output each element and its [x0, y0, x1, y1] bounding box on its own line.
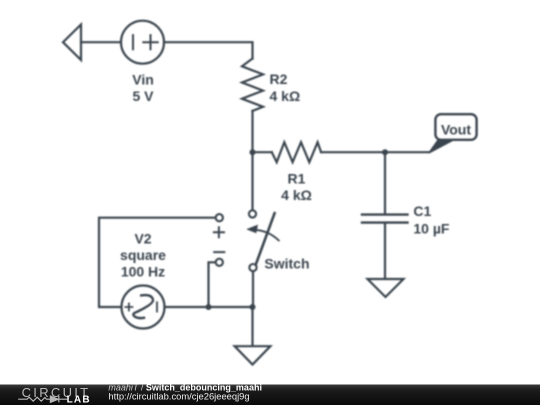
- svg-text:Switch: Switch: [264, 255, 309, 271]
- svg-text:R1: R1: [288, 171, 306, 187]
- wire R1 to Vout node: [321, 151, 385, 153]
- svg-text:Vin: Vin: [132, 71, 154, 87]
- wire node to Vout flag: [385, 151, 429, 153]
- svg-text:10 µF: 10 µF: [413, 221, 450, 237]
- resistor R1 zigzag: [272, 142, 321, 162]
- switch bottom terminal circle: [249, 264, 256, 271]
- node junction dot right: [382, 149, 388, 155]
- resistor R2 zigzag: [242, 59, 263, 111]
- Vin plus: [143, 35, 157, 49]
- V2 plus: [125, 304, 132, 311]
- ground G1: [235, 346, 271, 364]
- wire control+ to V2 left: [99, 218, 215, 307]
- svg-text:C1: C1: [413, 203, 431, 219]
- Vout flag box: [435, 114, 476, 140]
- switch top terminal circle: [249, 210, 256, 217]
- wire C1 to ground: [384, 223, 386, 279]
- switch control plus sign: [214, 227, 224, 237]
- wire rail to ground: [251, 307, 253, 346]
- wire node down to switch: [251, 152, 253, 210]
- switch actuate arc arrow: [253, 230, 279, 241]
- Vout flag pointer: [429, 139, 454, 153]
- capacitor C1 plates: [362, 215, 408, 223]
- ground G2: [368, 279, 404, 297]
- Vin minus (rotated bar): [132, 35, 134, 49]
- input port triangle Vin: [63, 25, 81, 61]
- wire V2 right to rail: [165, 306, 253, 308]
- wire switch to bottom rail: [252, 272, 254, 308]
- node junction dot left: [250, 149, 256, 155]
- switch control + terminal circle: [216, 214, 223, 221]
- logo squiggle wire resistor diode: [18, 396, 67, 402]
- svg-text:5 V: 5 V: [132, 88, 154, 104]
- V2 minus (rotated bar): [156, 302, 158, 311]
- wire control- hook to rail: [209, 262, 216, 307]
- wire port to Vin source: [81, 41, 121, 43]
- wire Vin to top corner: [164, 42, 253, 58]
- svg-text:Vout: Vout: [441, 121, 471, 137]
- wire node to R1: [253, 151, 272, 153]
- V2 square-wave squiggle: [133, 295, 153, 318]
- switch control - terminal circle: [216, 259, 223, 266]
- svg-text:V2: V2: [134, 230, 151, 246]
- voltage source V2 circle: [122, 286, 165, 329]
- svg-text:LAB: LAB: [67, 395, 91, 405]
- wire node down to C1: [384, 152, 386, 214]
- switch control minus sign: [214, 251, 224, 253]
- svg-text:square: square: [120, 247, 166, 263]
- switch blade: [256, 213, 275, 264]
- wire R2 to node: [251, 111, 253, 152]
- svg-text:http://circuitlab.com/cje26jee: http://circuitlab.com/cje26jeeeqj9g: [108, 391, 249, 402]
- svg-text:R2: R2: [270, 71, 288, 87]
- svg-text:4 kΩ: 4 kΩ: [270, 88, 301, 104]
- junction dot rail right: [250, 304, 256, 310]
- junction dot rail left: [206, 304, 212, 310]
- svg-text:100 Hz: 100 Hz: [121, 263, 165, 279]
- voltage source Vin circle: [121, 21, 164, 64]
- svg-text:4 kΩ: 4 kΩ: [281, 187, 312, 203]
